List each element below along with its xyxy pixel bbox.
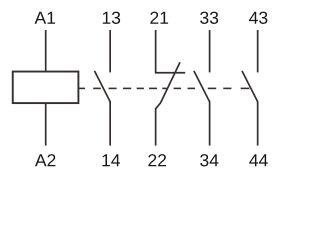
wire 34 lead — [209, 101, 211, 145]
wire 33 lead — [209, 30, 211, 72]
terminal label A1 — [35, 12, 56, 24]
terminal label 44 — [249, 154, 268, 166]
wire A2 lead — [45, 103, 47, 146]
wire linkage dash 11 — [223, 87, 231, 89]
terminal label A2 — [35, 154, 55, 166]
terminal label 21 — [150, 12, 168, 24]
terminal label 43 — [249, 12, 267, 24]
wire linkage dash 7 — [162, 87, 166, 89]
wire linkage dash 9 — [188, 87, 195, 89]
wire 13 lead — [109, 30, 111, 72]
wire 14 lead — [109, 101, 111, 145]
contact 13-14 NO moving arm — [95, 71, 111, 102]
terminal label 13 — [103, 12, 120, 24]
wire linkage dash 12 — [241, 87, 250, 89]
wire linkage dash 3 — [109, 87, 117, 89]
contact 43-44 NO moving arm — [242, 71, 258, 102]
wire 43 lead — [257, 30, 259, 72]
wire 21 lead — [155, 30, 157, 73]
wire linkage dash 6 — [149, 87, 157, 89]
wire linkage dash 4 — [123, 87, 131, 89]
wire linkage dash 1 — [78, 87, 85, 89]
wire 22 lead — [155, 108, 157, 145]
contact 21-22 NC seat bar — [155, 72, 185, 74]
wire linkage dash 2 — [93, 87, 101, 89]
wire linkage dash 8 — [174, 87, 181, 89]
coil K1 — [13, 72, 79, 104]
wire linkage dash 10 — [208, 87, 216, 89]
contact 21-22 NC moving arm — [156, 62, 180, 109]
mechanical linkage dashed line — [78, 87, 249, 89]
terminal label 22 — [148, 154, 166, 166]
wire A1 lead — [45, 30, 47, 72]
terminal label 33 — [200, 12, 218, 24]
terminal label 34 — [200, 154, 218, 166]
contact 33-34 NO moving arm — [194, 71, 210, 102]
wire linkage dash 5 — [137, 87, 144, 89]
terminal label 14 — [102, 154, 120, 166]
wire 44 lead — [257, 101, 259, 145]
